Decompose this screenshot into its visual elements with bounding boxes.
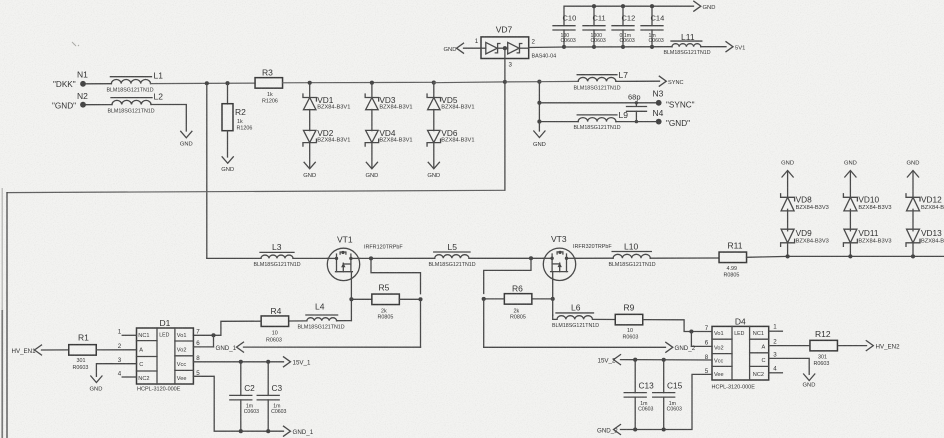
junction bus to gate-drive column (205, 81, 209, 85)
zener diode VD4 (366, 130, 379, 142)
wire left edge vertical (6, 193, 8, 438)
wire L11 to 5V1 (701, 46, 726, 48)
wire between VD10 and VD11 (849, 209, 851, 231)
junction R5 left (349, 297, 353, 301)
wire VT1 source down (350, 272, 352, 321)
transistor VT1 IRFR120TRPbF (327, 248, 359, 280)
wire vertical x207 bus down to L3 row (206, 83, 208, 258)
wire L3 to VT1 (293, 257, 327, 259)
wire D4 pin6 stub (691, 345, 712, 347)
capacitor C2 (240, 362, 242, 396)
junction C13 top (633, 358, 637, 362)
net arrow SYNC (659, 76, 666, 86)
junction bus to VD5 (432, 81, 436, 85)
inductor L3 (261, 255, 293, 258)
wire D1 pin8 Vcc line (193, 361, 283, 363)
node N4 "GND" (656, 119, 662, 125)
junction VD13 rail (911, 254, 915, 258)
capacitor C15 (663, 360, 665, 393)
wire VD6 to ground (433, 143, 435, 168)
junction C11 bottom (592, 45, 596, 49)
resistor R5 (372, 294, 400, 305)
wire VD7 pin2 to capacitor bank (529, 46, 564, 49)
wire corner x207 to L3 (207, 257, 261, 259)
wire D4 pin3 to ground (769, 358, 810, 374)
wire gnd to VD8 (787, 172, 789, 198)
wire VT3 source corner to L6 (553, 315, 557, 319)
capacitor C12 (622, 6, 624, 25)
wire R4 to L4 (290, 320, 307, 322)
wire R6 rail down to GND_2 line (483, 299, 485, 347)
wire between VD1 and VD2 (309, 110, 311, 131)
wire gnd arrow to VD7 pin1 (464, 47, 482, 49)
wire R1 to D1 pin2 (96, 349, 136, 351)
junction C15 top (662, 358, 666, 362)
junction C12 bottom (621, 45, 625, 49)
zener diode VD10 (844, 197, 857, 211)
wire VD1 column (309, 83, 311, 98)
wire bus to sync drop (505, 81, 540, 83)
wire D1 pin5 Vee to bottom rail (193, 376, 283, 431)
optocoupler D4 HCPL-3120-000E (712, 326, 769, 380)
wire R11 to output rail (747, 255, 944, 258)
junction VT3 left (529, 256, 533, 260)
zener diode VD9 (781, 229, 794, 243)
wire L10 to R11 (650, 257, 718, 259)
wire bus segment to L7 (539, 80, 578, 82)
inductor L7 on bus (578, 77, 616, 81)
resistor R3 (255, 78, 282, 89)
wire VD13 to output rail (912, 243, 914, 257)
ground at sync drop (534, 131, 545, 138)
wire VD2 to ground (309, 143, 311, 168)
junction VT1 right (369, 256, 373, 260)
inductor L2 (112, 100, 151, 104)
capacitor C13 (634, 360, 636, 393)
net label GND_2 bottom with arrow (614, 425, 621, 435)
wire D1 pin3 to ground (96, 364, 136, 377)
pin 4 stub D4 (769, 372, 783, 374)
junction R6 left (482, 297, 486, 301)
junction VD7 pin3 on bus (503, 80, 507, 84)
junction bus to VD1 (308, 81, 312, 85)
zener diode VD5 (428, 98, 441, 110)
wire lower rail y191 (7, 190, 505, 192)
junction VD11 rail (848, 254, 852, 258)
zener diode VD12 (907, 197, 920, 211)
net arrow GND_1 bottom (284, 426, 291, 436)
wire between VD3 and VD4 (371, 110, 373, 131)
wire 15V_2 to D4 pin8 (621, 359, 713, 361)
capacitor C11 (593, 6, 595, 25)
wire R2 to ground (227, 131, 229, 157)
node N3 "SYNC" (656, 100, 662, 106)
resistor R2 (222, 104, 233, 131)
junction C12 top (621, 4, 625, 8)
inductor L5 (435, 255, 469, 259)
wire R3 to diode bank (283, 82, 311, 84)
wire HV_EN1 to R1 (42, 349, 69, 351)
junction C3 bottom (266, 429, 270, 433)
zener diode VD3 (366, 98, 379, 110)
inductor L11 (672, 44, 701, 47)
wire between VD8 and VD9 (787, 209, 789, 231)
junction C11 top (592, 4, 596, 8)
inductor L6 (557, 316, 593, 320)
zener diode VD8 (781, 197, 794, 211)
wire gnd to VD10 (849, 172, 851, 198)
wire L7 to SYNC arrow (616, 80, 660, 82)
dual schottky diode VD7 BAS40-04 (481, 37, 529, 59)
wire VD5 column (433, 83, 435, 98)
wire R5 right (399, 298, 420, 300)
wire top GND rail of capacitor bank (564, 6, 694, 25)
wire x539 to L9 (539, 121, 578, 123)
ground after L2 (181, 131, 192, 138)
resistor R1 (69, 345, 97, 356)
pin 1 stub D4 (769, 330, 783, 332)
junction D4 pin7 to pin6 tie (689, 329, 693, 333)
resistor R9 (615, 314, 643, 325)
wire GND_1 line to R5 rail (244, 346, 421, 348)
junction C10 bottom (562, 45, 566, 49)
scan left edge artifact (1, 310, 3, 438)
junction VD7 center pin3 (503, 46, 507, 50)
wire VT3 to L10 (576, 257, 613, 259)
wire R9 to D4 pin7 (643, 320, 712, 332)
ground below VD4 (366, 162, 377, 169)
wire gnd to VD12 (912, 172, 914, 198)
junction bus sync drop (537, 80, 541, 84)
wire VD3 column (371, 83, 373, 98)
resistor R6 (504, 294, 531, 305)
wire N2 to L2 (86, 104, 112, 106)
wire D1 pin6 stub (193, 346, 213, 348)
capacitor C3 (267, 362, 269, 396)
wire R6 right (532, 298, 553, 300)
ground below VD6 (428, 162, 439, 169)
inductor L1 (111, 79, 150, 83)
wire L1 to R3 junction (151, 82, 256, 85)
wire cap bank bottom rail (564, 46, 672, 48)
junction C14 top (650, 4, 654, 8)
junction drop N4 line (537, 120, 541, 124)
wire VD4 to ground (371, 143, 373, 168)
ground at D1 pin3 (91, 376, 102, 383)
junction pin7 to pin6 tie (211, 333, 215, 337)
wire VT3 left down to R6 left rail (484, 258, 531, 293)
wire R6 left (484, 298, 504, 300)
wire D4 pin2 to R12 (769, 345, 809, 347)
resistor R12 (810, 340, 838, 351)
ground at D4 pin3 (804, 374, 815, 381)
net arrow 15V_1 (284, 357, 291, 367)
zener diode VD2 (303, 130, 316, 142)
junction C13 bottom (633, 427, 637, 431)
inductor L9 (578, 118, 616, 122)
junction drop N3 line (537, 101, 541, 105)
wire bus R2 stub (227, 83, 229, 104)
pin 1 stub D1 (122, 334, 136, 336)
pin 4 stub D1 (122, 376, 136, 378)
junction C3 top (266, 360, 270, 364)
wire VD7 pin3 down across bus to lower rail (504, 48, 506, 82)
zener diode VD11 (844, 229, 857, 243)
wire L2 to ground (151, 105, 186, 132)
capacitor C14 (651, 6, 653, 25)
ground after R2 (222, 157, 233, 164)
wire bus VD5 to VD7 junction (434, 81, 505, 84)
wire drop x539 bus to gnd (538, 82, 540, 131)
transistor VT3 IRFR320TRPbF (543, 248, 575, 280)
junction bus to R2 (225, 81, 229, 85)
wire bus across diode bank (310, 81, 434, 83)
net label GND_2 with arrow (666, 342, 673, 352)
optocoupler D1 HCPL-3120-000E (137, 328, 194, 384)
junction C15 bottom (662, 427, 666, 431)
wire pin7-pin6 tie (213, 335, 215, 347)
zener diode VD1 (303, 98, 316, 110)
node N2 "GND" (80, 102, 86, 108)
zener diode VD13 (907, 229, 920, 243)
resistor R11 (719, 252, 747, 262)
wire VT1 right down to R5 right rail (371, 258, 421, 293)
junction R5 right (418, 297, 422, 301)
wire pin7 riser to R4 (193, 321, 260, 335)
wire L6 to R9 (593, 318, 615, 320)
capacitor C10 (553, 25, 575, 27)
wire D4 pin7-pin6 tie (690, 332, 692, 347)
inductor L4 (307, 318, 337, 321)
junction C14 bottom (650, 45, 654, 49)
wire VD9 to output rail (787, 243, 789, 257)
wire VT3 source down (552, 272, 554, 316)
inductor L10 (613, 254, 650, 258)
wire between VD12 and VD13 (912, 209, 914, 231)
wire R5 left (351, 298, 372, 300)
net arrow 5V1 (726, 42, 733, 52)
wire R12 to HV_EN2 (839, 345, 867, 347)
net arrow HV_EN2 (866, 341, 873, 351)
net arrow GND top rail (694, 1, 701, 11)
wire L9 to N4 (616, 121, 656, 123)
wire L4 to VT1 source (337, 320, 352, 322)
wire N1 to L1 (86, 83, 112, 85)
junction R6 right (551, 297, 555, 301)
junction C2 top (239, 360, 243, 364)
wire D4 pin5 Vee to bottom rail (621, 374, 713, 429)
wire GND_2 line from R6 rail (484, 346, 666, 348)
wire L5 to VT3 (469, 257, 544, 259)
junction C2 bottom (239, 429, 243, 433)
zener diode VD6 (428, 130, 441, 142)
junction bus to VD3 (370, 81, 374, 85)
wire VT1 to L5 (360, 257, 435, 259)
resistor R4 (261, 316, 289, 327)
wire R5 rail down to GND_1 line (420, 299, 422, 347)
wire N3 line (539, 102, 656, 104)
ground below VD2 (304, 162, 315, 169)
wire VD11 to output rail (849, 243, 851, 257)
node N1 "DKK" (80, 81, 86, 87)
junction VD9 rail (786, 254, 790, 258)
wire between VD5 and VD6 (433, 110, 435, 131)
